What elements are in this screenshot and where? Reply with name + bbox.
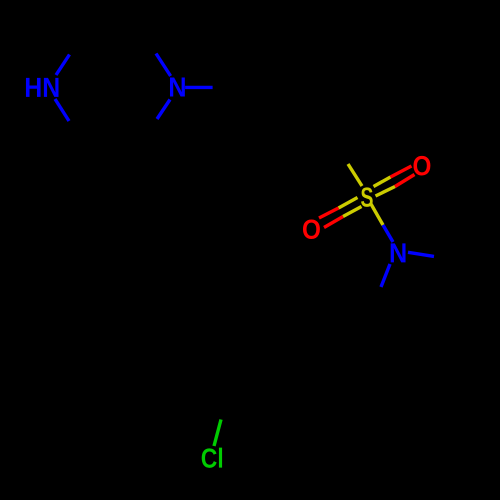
- wire S=O upper-right line2 S-half: [376, 187, 396, 197]
- wire S-CH3 half-bond: [348, 164, 362, 186]
- wire S=O lower-left line1 S-half: [339, 198, 358, 209]
- atom label O (upper right): [413, 156, 430, 176]
- wire S=O lower-left line1 O-half: [319, 208, 339, 218]
- wire S-N bond S-half: [371, 204, 383, 225]
- wire N-CH3 right half-bond: [408, 252, 434, 256]
- wire S=O upper-right line1 O-half: [391, 166, 412, 177]
- wire C3-N4 upper-left half-bond: [156, 54, 171, 77]
- atom label N (piperazine N4): [170, 78, 185, 97]
- wire S=O lower-left line2 S-half: [343, 207, 362, 217]
- atom label HN (piperazine N1): [26, 78, 59, 97]
- wire N4-C5 lower-left half-bond: [157, 100, 170, 120]
- wire N1-C2 upper half-bond: [56, 55, 70, 76]
- atom label Cl (chlorine): [202, 448, 222, 468]
- wire N-CH3 lower-left half-bond: [381, 264, 390, 287]
- atom label N (dimethylamino): [391, 243, 406, 262]
- atom label S (sulfonyl): [361, 187, 373, 207]
- wire S=O upper-right line2 O-half: [395, 175, 415, 187]
- wire N1-C6 lower half-bond: [55, 99, 69, 121]
- atom label O (lower left): [303, 219, 320, 239]
- wire S-N bond N-half: [383, 225, 393, 242]
- wire S=O lower-left line2 O-half: [324, 217, 343, 228]
- wire S=O upper-right line1 S-half: [374, 177, 391, 187]
- wire N4-C right horizontal half-bond: [185, 86, 213, 89]
- wire Cl-C half-bond: [214, 420, 221, 447]
